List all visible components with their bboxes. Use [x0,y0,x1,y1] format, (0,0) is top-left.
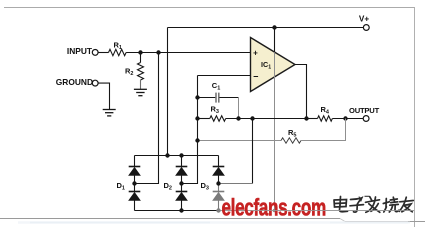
junction node R2 tap [138,50,142,54]
wire bottom rail gray extension [219,210,415,212]
capacitor C1 [216,93,219,103]
diode D3 pair [213,156,225,211]
resistor R2 [140,53,142,63]
border frame top [4,7,415,9]
wire inverting input [198,75,251,77]
wire C1 right [219,97,238,99]
junction R3 left [195,116,199,120]
GROUND terminal circle [92,80,98,86]
wire R1 to op-amp non-inverting input [126,52,250,54]
resistor R5 [281,138,301,143]
resistor R3 [210,116,226,121]
op-amp IC1 [251,38,296,92]
resistor R4 [318,116,333,121]
svg-text:V+: V+ [359,15,369,24]
diode D1 pair [129,156,141,211]
wire op-amp V- pin down to bottom rail [274,52,276,211]
junction D2 middle [179,181,183,185]
junction C1 right on R3 line [236,116,240,120]
V+ terminal circle [363,25,369,31]
watermark chinese text [334,197,413,213]
junction D3 middle [216,181,220,185]
svg-text:INPUT: INPUT [67,46,93,56]
wire diode top rail [135,155,219,157]
junction D1 middle [132,181,136,185]
wire op-amp output [295,65,307,119]
svg-text:elecfans.com: elecfans.com [222,195,326,222]
junction output node [343,116,347,120]
junction D3 bottom (gray) [216,208,220,212]
wire feedback bus down to D2 anode [182,76,198,184]
wire V+ top rail [168,27,364,29]
wire R3 line down to D3 anode [252,119,254,184]
wire input to R1 [98,52,108,54]
wire op-amp V+ pin [274,28,276,53]
wire R4 to output terminal [332,118,363,120]
wire R2 to ground [140,80,142,89]
svg-text:−: − [253,71,258,81]
junction op-amp V+ pin [272,25,276,29]
border frame right [414,7,416,227]
diode D2 pair [176,156,188,211]
junction node divider tap to D1 [156,50,160,54]
svg-text:GROUND: GROUND [56,77,93,87]
wire R3 line left [198,118,210,120]
junction D3 feed on R3 line [250,116,254,120]
junction C1 left [195,95,199,99]
junction D2 top [179,153,183,157]
border frame bottom [0,218,340,220]
wire C1 down to R3 line [238,98,240,119]
resistor R1 [109,49,127,55]
wire to R4 [307,118,318,120]
wire input node down to D1 anode [135,53,159,184]
svg-text:OUTPUT: OUTPUT [349,106,380,115]
ground symbol at ground terminal [103,110,116,116]
junction D2 bottom [179,208,183,212]
junction V- pin on bottom rail (gray) [273,209,277,213]
wire ground terminal [98,83,109,109]
OUTPUT terminal circle [363,116,369,122]
svg-text:+: + [253,49,258,58]
INPUT terminal circle [92,50,98,56]
wire diode bottom rail [135,210,219,212]
wire R5 line left [198,140,282,142]
wire C1 left [198,97,216,99]
wire R5 right up to output node [301,119,346,141]
wire bottom rail overlay through watermark [252,210,414,212]
junction output to R3 line [304,116,308,120]
ground symbol below R2 [134,89,147,95]
junction R5 left [195,138,199,142]
wire V+ rail down to diode rail [167,28,169,156]
wire R3 to output node [226,118,306,120]
faint watermark residue line [18,221,408,223]
junction V+ feed on diode rail [165,153,169,157]
wire D3 anode jog (gray) [219,183,253,185]
